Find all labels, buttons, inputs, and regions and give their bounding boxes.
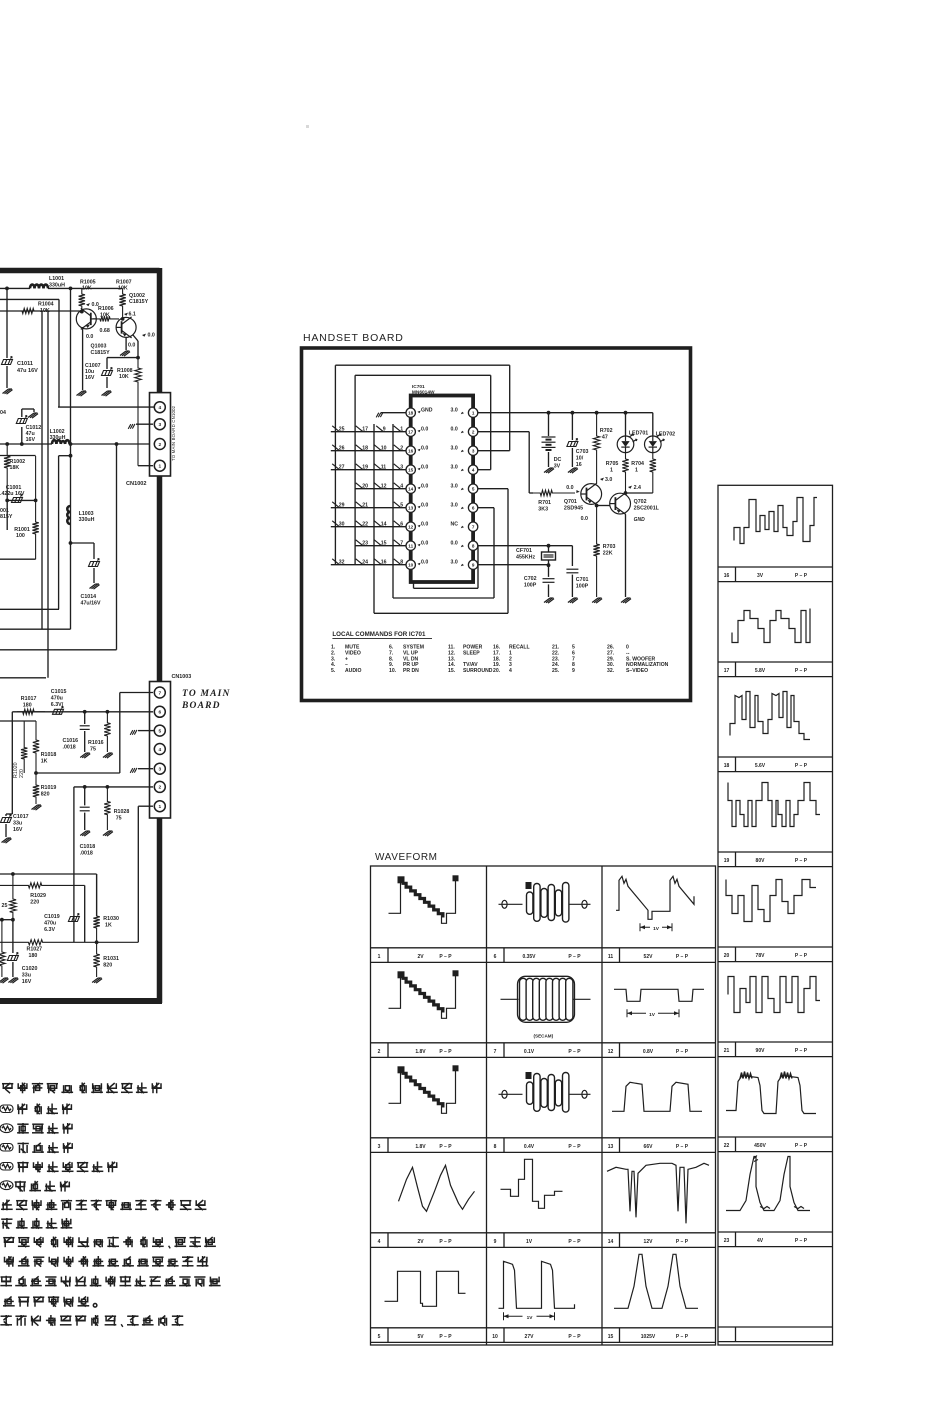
waveform label 15 xyxy=(619,1328,621,1343)
wire vertical lower x58.6 xyxy=(58,456,60,610)
svg-text:4: 4 xyxy=(400,484,403,490)
svg-text:3: 3 xyxy=(158,422,161,428)
svg-text:25.: 25. xyxy=(552,668,560,674)
routing loop pin6 bottom xyxy=(478,507,494,509)
svg-text:P – P: P – P xyxy=(795,573,808,579)
svg-text:SLEEP: SLEEP xyxy=(463,650,480,656)
pin 7 CN1003 xyxy=(154,687,165,698)
svg-text:0.0: 0.0 xyxy=(421,484,428,490)
svg-text:26: 26 xyxy=(339,446,345,452)
svg-text:15: 15 xyxy=(381,541,387,547)
svg-text:455KHz: 455KHz xyxy=(516,555,535,561)
svg-text:13: 13 xyxy=(408,506,414,511)
chinese note line 6 xyxy=(15,1181,70,1192)
pin 2 CN1002 xyxy=(154,439,165,450)
svg-text:14: 14 xyxy=(408,487,414,492)
svg-text:R1017: R1017 xyxy=(21,696,37,702)
wire drop x96.6 xyxy=(96,874,98,916)
waveform label 4 xyxy=(387,1233,389,1248)
wire upper-left bend xyxy=(0,298,59,300)
wire pin9 net xyxy=(478,564,549,566)
svg-text:24: 24 xyxy=(362,560,368,566)
voltage 0.0 at Q1003 collector xyxy=(86,303,90,306)
svg-text:2.4: 2.4 xyxy=(634,485,641,491)
waveform trace 15 xyxy=(614,1254,698,1308)
svg-text:7: 7 xyxy=(494,1049,497,1055)
svg-text:2: 2 xyxy=(158,785,161,791)
waveform grid main xyxy=(371,866,716,1345)
wire box bottom xyxy=(0,558,36,560)
svg-text:SURROUND: SURROUND xyxy=(463,668,493,674)
pin 5 CN1003 xyxy=(154,725,165,736)
waveform trace 4 xyxy=(399,1165,475,1211)
resistor R1019 xyxy=(33,773,39,804)
svg-text:0.8V: 0.8V xyxy=(643,1049,654,1055)
svg-text:MN6014W: MN6014W xyxy=(412,390,435,396)
svg-text:R702: R702 xyxy=(600,428,613,434)
waveform trace 5 xyxy=(385,1271,466,1306)
matrix row wire y527 xyxy=(331,526,406,528)
waveform trace 23 xyxy=(726,1157,810,1211)
svg-text:AUDIO: AUDIO xyxy=(345,668,361,674)
wire Q1002 to ground xyxy=(125,337,127,350)
svg-text:8: 8 xyxy=(400,560,403,566)
svg-text:P – P: P – P xyxy=(439,954,452,960)
wire Q701 emitter node xyxy=(595,504,599,508)
waveform trace 20 xyxy=(726,880,816,922)
waveform label 21 xyxy=(735,1042,737,1057)
matrix column wire 4 xyxy=(392,424,394,598)
legend icon flame-proof resistor xyxy=(0,1105,13,1113)
matrix row wire y451 xyxy=(331,450,406,452)
wire small bus xyxy=(7,499,35,501)
svg-text:10.: 10. xyxy=(389,668,397,674)
svg-text:3.0: 3.0 xyxy=(451,560,458,566)
waveform label 14 xyxy=(619,1233,621,1248)
waveform label 23 xyxy=(735,1232,737,1247)
pin 5 IC701 xyxy=(468,484,477,493)
svg-text:1K: 1K xyxy=(105,923,112,929)
svg-text:C1815Y: C1815Y xyxy=(129,299,149,305)
matrix row wire y508 xyxy=(331,507,406,509)
wire vertical bus x48 xyxy=(47,311,49,678)
wire jog xyxy=(59,455,71,457)
wire 9V bus xyxy=(0,287,30,289)
chinese note line 7 xyxy=(1,1200,206,1211)
wire left drop x12 xyxy=(11,712,13,814)
waveform trace 3 xyxy=(389,1070,401,1103)
svg-text:8: 8 xyxy=(472,544,475,549)
svg-text:180: 180 xyxy=(29,953,38,959)
waveform trace 6 xyxy=(499,903,523,905)
svg-text:P – P: P – P xyxy=(795,858,808,864)
svg-text:2: 2 xyxy=(158,442,161,448)
waveform label 12 xyxy=(619,1043,621,1058)
resistor R1001 xyxy=(32,456,38,559)
svg-text:16: 16 xyxy=(576,462,582,468)
svg-text:1V: 1V xyxy=(527,1315,534,1321)
svg-text:P – P: P – P xyxy=(568,1334,581,1340)
resistor R1018 xyxy=(33,721,39,773)
svg-text:C1015: C1015 xyxy=(51,689,67,695)
ground under C1020 xyxy=(0,978,9,983)
svg-text:0.4V: 0.4V xyxy=(524,1144,535,1150)
svg-text:RECALL: RECALL xyxy=(509,645,530,651)
svg-text:P – P: P – P xyxy=(795,1143,808,1149)
svg-text:16V: 16V xyxy=(85,375,95,381)
svg-text:0.1V: 0.1V xyxy=(524,1049,535,1055)
chinese note line 10 xyxy=(5,1256,209,1267)
node R1005 R1004 Q1003 collector xyxy=(80,310,84,314)
voltage 0.0 right of Q1002 xyxy=(142,334,146,337)
waveform trace 1 xyxy=(389,880,401,913)
capacitor C1012 xyxy=(21,427,23,444)
pin 17 IC701 xyxy=(406,427,415,436)
svg-text:17: 17 xyxy=(408,430,414,435)
svg-text:P – P: P – P xyxy=(795,1238,808,1244)
svg-text:1: 1 xyxy=(635,468,638,474)
svg-text:S–VIDEO: S–VIDEO xyxy=(626,668,648,674)
wire pin8 net xyxy=(478,545,573,547)
ground under R703 xyxy=(592,598,602,603)
legend icon cement resistor xyxy=(0,1144,13,1152)
ground under R1028 xyxy=(103,831,113,836)
svg-text:2V: 2V xyxy=(417,954,424,960)
pin 12 IC701 xyxy=(406,522,415,531)
svg-text:9: 9 xyxy=(494,1239,497,1245)
wire bus y919.7 xyxy=(0,919,13,921)
svg-text:100P: 100P xyxy=(576,584,589,590)
svg-text:0.0: 0.0 xyxy=(421,503,428,509)
svg-text:7: 7 xyxy=(158,690,161,696)
wire pin5 ground xyxy=(138,730,154,732)
ground under C702 xyxy=(544,598,554,603)
svg-text:0.0: 0.0 xyxy=(421,541,428,547)
pin 4 CN1003 xyxy=(154,744,165,755)
svg-text:75: 75 xyxy=(90,747,96,753)
wire left bus y721 xyxy=(0,720,36,722)
capacitor C1011 xyxy=(6,288,8,358)
routing loop rect B top xyxy=(355,374,491,376)
svg-text:19: 19 xyxy=(724,858,730,864)
waveform label 17 xyxy=(735,662,737,677)
resistor R703 xyxy=(593,506,599,598)
waveform label 22 xyxy=(735,1137,737,1152)
svg-text:6: 6 xyxy=(494,954,497,960)
svg-text:5: 5 xyxy=(400,503,403,509)
waveform label 7 xyxy=(503,1043,505,1058)
svg-text:C701: C701 xyxy=(576,577,589,583)
svg-text:3.0: 3.0 xyxy=(605,477,612,483)
handset board border xyxy=(302,348,691,701)
svg-text:0.0: 0.0 xyxy=(148,333,155,339)
pin 4 CN1002 xyxy=(154,402,165,413)
capacitor C702 xyxy=(548,565,550,577)
chinese note line 2 xyxy=(17,1104,72,1115)
svg-text:1: 1 xyxy=(158,464,161,470)
svg-text:0.0: 0.0 xyxy=(128,343,135,349)
svg-text:16: 16 xyxy=(724,573,730,579)
svg-text:20.: 20. xyxy=(493,668,501,674)
svg-text:C1011: C1011 xyxy=(17,361,33,367)
pin 7 IC701 xyxy=(468,522,477,531)
svg-text:0.35V: 0.35V xyxy=(522,954,536,960)
svg-text:47: 47 xyxy=(602,435,608,441)
waveform trace 16 xyxy=(734,498,817,544)
svg-text:47u/16V: 47u/16V xyxy=(81,601,101,607)
svg-text:20: 20 xyxy=(362,484,368,490)
svg-text:0.0: 0.0 xyxy=(86,334,93,340)
pin 3 CN1002 xyxy=(154,419,165,430)
capacitor C1017 xyxy=(5,814,7,816)
pin 1 CN1002 xyxy=(154,460,165,471)
pin 11 IC701 xyxy=(406,541,415,550)
svg-text:8: 8 xyxy=(494,1144,497,1150)
legend icon thermistor xyxy=(0,1181,13,1190)
pin 14 IC701 xyxy=(406,484,415,493)
svg-text:CN1003: CN1003 xyxy=(172,674,192,680)
svg-text:0.0: 0.0 xyxy=(581,516,588,522)
waveform trace 8 xyxy=(499,1093,523,1095)
svg-text:220: 220 xyxy=(30,900,39,906)
ground above C1012 xyxy=(28,413,38,418)
chinese note line 13 xyxy=(0,1315,183,1327)
svg-text:R703: R703 xyxy=(603,544,616,550)
svg-text:P – P: P – P xyxy=(795,953,808,959)
waveform trace 22 xyxy=(726,1076,816,1114)
svg-text:P – P: P – P xyxy=(795,1048,808,1054)
wire vertical bus x42 xyxy=(41,311,43,629)
wire pin4 CN1002 xyxy=(58,406,154,408)
svg-text:18: 18 xyxy=(724,763,730,769)
svg-text:IC701: IC701 xyxy=(412,384,425,390)
svg-text:GND: GND xyxy=(634,517,646,523)
svg-text:3: 3 xyxy=(400,465,403,471)
svg-text:12V: 12V xyxy=(644,1239,654,1245)
pin 13 IC701 xyxy=(406,503,415,512)
wire vertical x70 lower with L1003 xyxy=(67,506,70,524)
wire pin2 net y786.9 xyxy=(74,786,153,788)
svg-text:0.0: 0.0 xyxy=(421,465,428,471)
waveform trace 13 xyxy=(612,1082,702,1111)
svg-text:470u: 470u xyxy=(44,921,56,927)
svg-text:100: 100 xyxy=(16,533,25,539)
waveform trace 14 xyxy=(607,1163,709,1223)
svg-text:2: 2 xyxy=(400,446,403,452)
svg-text:21: 21 xyxy=(724,1048,730,1054)
svg-text:R1031: R1031 xyxy=(103,956,119,962)
svg-text:75: 75 xyxy=(116,816,122,822)
legend icon fuse resistor xyxy=(0,1124,13,1133)
resistor R1020 xyxy=(21,721,27,773)
svg-text:HANDSET BOARD: HANDSET BOARD xyxy=(303,332,404,344)
waveform label 10 xyxy=(503,1328,505,1343)
wire pin1 CN1002 xyxy=(138,465,153,467)
wire bend x46 bottom xyxy=(0,677,46,679)
wire main bus y444 xyxy=(0,443,52,445)
svg-text:0.0: 0.0 xyxy=(451,427,458,433)
wire pin1 power rail xyxy=(478,412,653,414)
waveform label 20 xyxy=(735,947,737,962)
waveform trace 19 xyxy=(728,783,820,827)
chinese note line 4 xyxy=(18,1142,73,1153)
pin 2 CN1003 xyxy=(154,781,165,792)
svg-text:3: 3 xyxy=(378,1144,381,1150)
inductor L1001 xyxy=(30,285,48,289)
pin 18 IC701 xyxy=(406,408,415,417)
svg-text:80V: 80V xyxy=(756,858,766,864)
chinese note line 1 xyxy=(2,1083,162,1094)
LED LED701 xyxy=(625,413,627,436)
svg-text:27: 27 xyxy=(339,465,345,471)
svg-text:100P: 100P xyxy=(524,583,537,589)
svg-text:32.: 32. xyxy=(607,668,615,674)
ground under Q1002 xyxy=(120,351,130,356)
svg-text:5: 5 xyxy=(472,487,475,492)
svg-text:25: 25 xyxy=(2,903,8,909)
svg-text:3V: 3V xyxy=(554,464,561,470)
svg-text:P – P: P – P xyxy=(676,1239,689,1245)
pin 6 IC701 xyxy=(468,503,477,512)
pin 1 CN1003 xyxy=(154,801,165,812)
svg-text:1.8V: 1.8V xyxy=(415,1144,426,1150)
wire pin2 to R701 xyxy=(478,431,530,433)
svg-text:R1006: R1006 xyxy=(98,306,114,312)
svg-text:25: 25 xyxy=(339,427,345,433)
svg-text:P – P: P – P xyxy=(439,1239,452,1245)
waveform label 2 xyxy=(387,1043,389,1058)
svg-text:CN1002: CN1002 xyxy=(126,481,147,487)
svg-text:LED701: LED701 xyxy=(629,431,648,437)
svg-text:DC: DC xyxy=(554,457,562,463)
resistor R705 xyxy=(622,453,628,493)
svg-text:0.68: 0.68 xyxy=(100,328,110,334)
svg-text:R1028: R1028 xyxy=(114,809,130,815)
svg-text:4: 4 xyxy=(378,1239,381,1245)
svg-text:4: 4 xyxy=(509,668,512,674)
wire pin3 ground xyxy=(138,768,153,770)
waveform label 5 xyxy=(387,1328,389,1343)
wire xyxy=(48,287,123,289)
svg-text:18: 18 xyxy=(362,446,368,452)
svg-text:GND: GND xyxy=(421,408,433,414)
chinese note line 9 xyxy=(3,1237,216,1249)
svg-text:3.0: 3.0 xyxy=(451,446,458,452)
node R1018/R1019 xyxy=(34,771,38,775)
svg-text:1: 1 xyxy=(400,427,403,433)
svg-text:P – P: P – P xyxy=(439,1334,452,1340)
svg-text:3V: 3V xyxy=(757,573,764,579)
waveform label 13 xyxy=(619,1138,621,1153)
chinese note line 3 xyxy=(17,1123,73,1134)
svg-text:450V: 450V xyxy=(754,1143,766,1149)
svg-text:0.0: 0.0 xyxy=(421,427,428,433)
chinese note line 5 xyxy=(17,1162,117,1173)
wire pin6 net y711.8 xyxy=(12,711,153,713)
svg-text:NC: NC xyxy=(451,522,459,528)
svg-text:2: 2 xyxy=(378,1049,381,1055)
matrix column wire 1 xyxy=(334,365,336,565)
wire pin2 drop x73.9 xyxy=(73,787,75,942)
svg-text:1025V: 1025V xyxy=(641,1334,656,1340)
svg-text:R701: R701 xyxy=(538,500,551,506)
svg-text:3.0: 3.0 xyxy=(451,408,458,414)
wire Q1003 emitter to ground xyxy=(82,327,84,390)
waveform trace 11 xyxy=(616,876,694,919)
svg-text:330uH: 330uH xyxy=(49,282,65,288)
legend icon metal-oxide resistor xyxy=(0,1163,13,1171)
pin 8 IC701 xyxy=(468,541,477,550)
svg-text:2SD945: 2SD945 xyxy=(564,506,583,512)
svg-text:Q701: Q701 xyxy=(564,499,577,505)
chinese note line 8 xyxy=(1,1218,72,1229)
svg-text:12: 12 xyxy=(608,1049,614,1055)
svg-text:815Y: 815Y xyxy=(0,514,13,520)
svg-text:7: 7 xyxy=(472,525,475,530)
ground under R1016 xyxy=(103,753,113,758)
svg-text:R1030: R1030 xyxy=(103,916,119,922)
svg-text:18K: 18K xyxy=(10,465,20,471)
waveform label 11 xyxy=(619,948,621,963)
ground under C1014 xyxy=(90,584,100,589)
resistor fragment left edge xyxy=(0,920,5,977)
svg-text:15: 15 xyxy=(608,1334,614,1340)
transistor Q1003 xyxy=(76,308,96,329)
svg-text:6: 6 xyxy=(400,522,403,528)
battery DC 3V xyxy=(548,413,550,436)
svg-text:29: 29 xyxy=(339,503,345,509)
svg-text:0.0: 0.0 xyxy=(451,541,458,547)
svg-text:BOARD: BOARD xyxy=(181,701,221,711)
svg-text:P – P: P – P xyxy=(795,763,808,769)
waveform label 16 xyxy=(735,567,737,582)
voltage 3.0 at Q701 collector xyxy=(600,478,604,481)
svg-text:0.0: 0.0 xyxy=(421,560,428,566)
wire box top edge xyxy=(0,455,36,457)
ground under C1011 xyxy=(3,389,13,394)
ground under R1019 xyxy=(32,805,42,810)
svg-text:P – P: P – P xyxy=(439,1144,452,1150)
waveform label 8 xyxy=(503,1138,505,1153)
svg-text:R1018: R1018 xyxy=(41,752,57,758)
pin 4 IC701 xyxy=(468,465,477,474)
svg-text:47u 16V: 47u 16V xyxy=(17,368,38,374)
svg-text:2: 2 xyxy=(472,430,475,435)
svg-text:470u: 470u xyxy=(51,696,63,702)
transistor Q701 xyxy=(581,483,602,505)
svg-text:78V: 78V xyxy=(756,953,766,959)
matrix row wire y470 xyxy=(331,469,406,471)
svg-text:21: 21 xyxy=(362,503,368,509)
svg-text:R1016: R1016 xyxy=(88,740,104,746)
svg-text:10: 10 xyxy=(492,1334,498,1340)
wire emitter bus xyxy=(107,357,138,359)
svg-text:17: 17 xyxy=(362,427,368,433)
svg-text:3.0: 3.0 xyxy=(451,465,458,471)
svg-text:WAVEFORM: WAVEFORM xyxy=(375,852,438,863)
chinese note line 12 xyxy=(3,1296,97,1307)
pin 2 IC701 xyxy=(468,427,477,436)
svg-text:5: 5 xyxy=(378,1334,381,1340)
svg-text:18: 18 xyxy=(408,411,414,416)
svg-text:10: 10 xyxy=(381,446,387,452)
svg-text:3K3: 3K3 xyxy=(538,507,548,513)
svg-text:16V: 16V xyxy=(22,979,32,985)
waveform label 18 xyxy=(735,757,737,772)
pin 15 IC701 xyxy=(406,465,415,474)
svg-text:1V: 1V xyxy=(653,926,660,932)
wire bend x59 bottom xyxy=(0,608,59,610)
